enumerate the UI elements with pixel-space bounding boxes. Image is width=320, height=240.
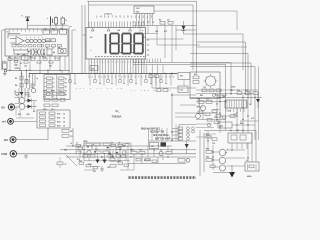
pin labels below bus [88, 75, 175, 78]
power box extra [216, 89, 244, 98]
resistor A3 [110, 158, 115, 161]
cluster A row2 [76, 151, 109, 154]
svg-text:C12: C12 [180, 90, 183, 92]
rm extra wires [196, 94, 220, 128]
svg-text:1μ: 1μ [36, 78, 38, 80]
wire top rail 2 [89, 4, 193, 6]
svg-text:R30: R30 [79, 160, 82, 162]
LCD digit 8b [122, 34, 131, 54]
svg-text:R41: R41 [200, 94, 203, 97]
block bottom dark dots [17, 51, 54, 55]
ladder stubs [44, 78, 47, 94]
N2 pins [137, 14, 153, 26]
svg-text:C15: C15 [131, 150, 134, 152]
svg-text:c: c [42, 37, 43, 39]
wire drop c [34, 74, 36, 87]
IC internal box cmp [47, 49, 52, 55]
array labels [26, 37, 43, 39]
IC internal labels [44, 28, 64, 30]
IC internal box ref [51, 30, 58, 34]
wire under bus right [152, 87, 196, 89]
svg-text:R20: R20 [57, 113, 60, 115]
svg-text:C16: C16 [139, 150, 142, 152]
svg-text:T5830A: T5830A [112, 114, 122, 118]
wire center v [171, 93, 173, 141]
wire rm h1 [196, 89, 258, 91]
svg-text:1k: 1k [70, 143, 72, 145]
transistor V11c [219, 157, 226, 164]
wire top-left rail [28, 24, 69, 29]
wire op-amp to array [24, 40, 50, 42]
driver box N6 [228, 133, 252, 143]
under block labels [8, 56, 52, 67]
driver box pins [232, 143, 247, 149]
resistor top right b [167, 19, 173, 24]
svg-text:10A: 10A [4, 139, 9, 142]
rm parts b [198, 110, 217, 116]
bus double ticks [134, 59, 161, 63]
svg-text:472: 472 [164, 30, 167, 33]
wire rm v1 [219, 90, 221, 133]
wire box feeds [48, 70, 62, 74]
jack VOmA [1, 104, 14, 110]
svg-text:C0: C0 [216, 104, 218, 106]
transistor V10c [219, 149, 226, 156]
svg-text:R44: R44 [240, 122, 243, 125]
svg-text:k: k [54, 83, 55, 85]
wire frame top br [204, 131, 256, 163]
wire block drops [10, 56, 65, 74]
ground cluster A [100, 166, 104, 171]
svg-text:C18: C18 [212, 143, 215, 145]
svg-text:R6: R6 [42, 56, 44, 58]
wire drop b [32, 74, 34, 89]
wire rm v2 [236, 108, 238, 133]
wire internal top [8, 34, 43, 36]
svg-text:SW: SW [91, 68, 94, 70]
svg-text:472: 472 [228, 110, 231, 113]
IC N4b box [177, 73, 190, 80]
svg-text:R25: R25 [64, 150, 67, 152]
LCD annunciator tri c [129, 28, 132, 31]
wire rm v5 [200, 98, 204, 120]
wire rm h2 [196, 93, 253, 95]
LCD digit 8c [134, 34, 143, 54]
LCD annunciator text [118, 30, 144, 32]
wire battery rail [7, 69, 70, 71]
svg-text:k: k [54, 87, 55, 89]
diode VD top [182, 21, 186, 34]
svg-text:R31: R31 [237, 90, 240, 92]
inner row2 parts [12, 44, 62, 47]
svg-text:R1: R1 [159, 19, 161, 21]
resistor under block a [8, 58, 12, 61]
wire harness v1 [68, 27, 70, 74]
transistor V3 [31, 88, 35, 92]
wire block bottom pins [10, 56, 60, 59]
svg-text:R50: R50 [206, 134, 209, 136]
frame corner rc [149, 125, 197, 147]
wire frame h1 [197, 42, 246, 95]
LCD annunciator tri a [91, 28, 94, 31]
svg-text:c: c [38, 37, 39, 39]
svg-text:R23: R23 [57, 125, 60, 127]
label N1 [116, 109, 121, 114]
wire row bus [148, 140, 196, 142]
svg-text:C7: C7 [76, 143, 78, 145]
wire under power box [190, 97, 262, 99]
wire block left loop [2, 30, 5, 70]
svg-text:473: 473 [49, 64, 52, 67]
svg-text:-a1: -a1 [147, 45, 150, 47]
power box outline [190, 72, 220, 99]
wire frame h4 [190, 63, 251, 105]
component in pin field [90, 66, 98, 71]
LCD digit 1 [105, 34, 107, 54]
band extra parts row1 [76, 144, 129, 147]
svg-text:R2: R2 [111, 143, 113, 145]
block top inner ticks [9, 29, 62, 32]
bus end parts [149, 73, 173, 78]
label TS830A [112, 114, 122, 118]
fuse F1 [55, 16, 58, 27]
band junction dots [72, 145, 168, 157]
br junction dots [212, 149, 248, 160]
transistor V9 [196, 114, 201, 119]
resistor row right c [253, 92, 258, 95]
label 6F22 right [231, 87, 235, 92]
wire harness v6 pin1 [88, 1, 90, 27]
svg-text:C2: C2 [52, 48, 54, 50]
resistor R-a [46, 39, 51, 42]
resistor chain R11 [20, 70, 23, 92]
rm parts c [207, 119, 219, 127]
IC right comps [58, 49, 66, 54]
power box labels [194, 74, 218, 96]
diode VD2 [28, 99, 32, 103]
LCD right marks [143, 37, 147, 52]
battery 9V [2, 61, 8, 70]
band extra labels [64, 143, 121, 173]
bus drop labels2 [131, 89, 172, 92]
rm parts a [198, 95, 224, 103]
svg-text:10μ: 10μ [83, 153, 86, 155]
IC internal box Xtal [43, 30, 50, 34]
cluster B verticals [131, 146, 168, 164]
svg-text:C1: C1 [8, 57, 10, 59]
bus double upper [133, 63, 231, 65]
relay box [218, 122, 232, 128]
svg-text:R21: R21 [57, 117, 60, 119]
electrolytic C dark [157, 142, 166, 147]
wire bus-end drops [152, 77, 184, 88]
labelled wire rows [141, 127, 178, 140]
wire left bus2 [30, 73, 70, 75]
hatch marks switch matrix [30, 49, 45, 56]
bottom small cluster left [57, 157, 67, 168]
wire frame v5 [190, 67, 259, 141]
IC N3 amplifier block outline [5, 29, 68, 56]
bus right top [133, 25, 196, 27]
bus bottom 1 [66, 145, 172, 147]
band extra parts row2 [83, 155, 121, 157]
rm extra labels [200, 94, 254, 125]
svg-text:104: 104 [236, 129, 239, 132]
jack 10A [4, 137, 17, 143]
wire topright drops [157, 24, 176, 62]
band extra parts row3 [79, 162, 129, 169]
base resistor a [206, 151, 212, 154]
svg-text:V6: V6 [160, 150, 162, 152]
band dark junctions [87, 145, 132, 158]
resistor B1 [166, 152, 172, 155]
cluster A labels [77, 141, 118, 169]
svg-text:c: c [34, 37, 35, 39]
chain labels [15, 76, 38, 87]
LCD top pins [89, 22, 144, 28]
diode VD right [256, 92, 260, 108]
jack COM [1, 151, 16, 157]
resistor under block d [31, 58, 35, 61]
svg-text:c: c [26, 37, 27, 39]
svg-text:4MHz: 4MHz [247, 175, 252, 178]
svg-text:AC(DC)V 750: AC(DC)V 750 [150, 131, 165, 134]
svg-text:BATT 9V 006P: BATT 9V 006P [155, 138, 171, 141]
svg-text:mA: mA [2, 121, 6, 124]
under bus right parts [156, 86, 188, 93]
grid labels [43, 91, 62, 112]
LCD module outline [86, 28, 146, 60]
rm band dots [207, 124, 243, 157]
topright small labels [155, 30, 167, 33]
wire harness v5 [84, 5, 86, 74]
svg-text:C7 103 R16 1k: C7 103 R16 1k [131, 89, 172, 92]
IC N4 hatched [225, 100, 247, 108]
wire br bottom [213, 172, 232, 174]
svg-text:9V: 9V [15, 64, 18, 67]
wire rm h3 [175, 113, 218, 117]
rm labels [197, 95, 251, 119]
wire frame h2 [197, 46, 247, 48]
capacitor under block e [37, 61, 41, 64]
cluster B extra [136, 159, 157, 163]
svg-text:R33: R33 [194, 74, 197, 76]
rm band parts [216, 115, 239, 133]
wire bl v [72, 128, 74, 146]
label probe [22, 16, 24, 18]
divider network box [44, 75, 70, 100]
cluster labels [14, 91, 35, 116]
resistor row right b [245, 90, 250, 95]
wire top rail 3 [154, 11, 237, 30]
rm junction dots [219, 89, 255, 116]
label 9V [15, 64, 21, 70]
wire cluster risers [19, 88, 28, 104]
label IC1 [7, 32, 11, 34]
LCD digit 8a [110, 34, 119, 54]
br labels [206, 148, 229, 159]
resistor grid [44, 93, 65, 107]
svg-text:C14: C14 [233, 113, 236, 116]
cluster A row1 [86, 143, 110, 146]
pin numbers row2 [133, 21, 155, 24]
svg-text:-a2: -a2 [147, 50, 150, 52]
ground battery [3, 72, 7, 76]
wire bottom right frame [200, 130, 204, 176]
wire br h2 [226, 150, 245, 166]
bus double drops [136, 65, 163, 74]
capacitor C3 [31, 84, 34, 87]
diode VD6 [103, 155, 107, 163]
wire jack1 [15, 106, 20, 108]
svg-text:C11: C11 [118, 160, 121, 162]
svg-text:223: 223 [93, 171, 96, 173]
range box rows [40, 112, 67, 127]
bus bottom 3 [66, 156, 196, 158]
transistor V8 [200, 105, 205, 110]
LCD annunciator tri b [107, 28, 110, 31]
wire harness stubs [69, 27, 86, 43]
wire rm h6 [196, 116, 259, 125]
wire frame h3 [190, 54, 248, 100]
svg-text:R4: R4 [15, 84, 17, 87]
wire br h [212, 152, 220, 167]
bus drops with parts [69, 74, 171, 86]
cluster A verticals [84, 140, 126, 161]
transistor V12c [220, 165, 226, 171]
svg-text:VΩ: VΩ [1, 106, 5, 109]
bus bottom 2 [60, 149, 196, 151]
transistor V5 [87, 150, 91, 154]
svg-text:C8: C8 [167, 19, 169, 21]
svg-text:C11: C11 [203, 87, 206, 89]
diode VD1 [20, 92, 24, 97]
svg-text:k: k [54, 79, 55, 81]
ground arrow dark [229, 165, 235, 178]
resistor row right a [237, 90, 242, 95]
wire row1 link [84, 144, 94, 147]
svg-text:R5: R5 [30, 56, 32, 58]
jack mA [2, 119, 13, 125]
svg-text:COM: COM [1, 153, 7, 156]
wire jack2 [13, 120, 37, 122]
svg-text:-a0: -a0 [147, 40, 150, 42]
wire harness v2 [71, 30, 73, 74]
diag wire [66, 155, 77, 166]
transistor V1 [19, 98, 25, 104]
LCD bottom pins [89, 59, 144, 74]
switch S1 [61, 16, 68, 27]
wire top rail 1 [87, 0, 197, 2]
resistor top right a [159, 19, 165, 24]
crystal label [247, 175, 252, 178]
wire rm v3 [242, 95, 244, 133]
svg-text:1k: 1k [171, 150, 173, 152]
LCD bottom marks [95, 56, 145, 58]
wire topright h [146, 39, 200, 45]
br mid wires [196, 131, 216, 150]
transistor under block [15, 60, 18, 63]
svg-text:c: c [30, 37, 31, 39]
svg-text:6F22: 6F22 [15, 68, 21, 70]
rm extra dots [216, 97, 248, 126]
transistor V2 [19, 104, 25, 110]
op-amp A1 [8, 34, 24, 46]
rail junction dots [9, 70, 60, 75]
wire topright rail2 [140, 26, 158, 34]
wire frame h0 [184, 34, 244, 70]
round IC U1 [204, 74, 218, 88]
power box rects [193, 76, 214, 92]
band extra h [84, 162, 134, 170]
wire drop a [29, 74, 31, 91]
svg-text:V12: V12 [251, 118, 254, 120]
svg-text:R26: R26 [84, 141, 87, 143]
LCD left marks [90, 36, 93, 52]
resistor under block g [49, 61, 53, 64]
diode VD5 [96, 155, 100, 163]
base resistor c [210, 165, 215, 168]
svg-text:C13: C13 [206, 99, 209, 101]
label col right of LCD [147, 40, 150, 57]
bus junction dots [95, 73, 165, 74]
svg-text:C9: C9 [95, 149, 97, 151]
wire harness v4 [81, 5, 83, 74]
small box B [178, 158, 190, 162]
svg-text:R10: R10 [18, 114, 21, 116]
resistor R-b [51, 39, 56, 42]
box under block [22, 56, 29, 61]
wire jack3 [16, 128, 48, 140]
svg-text:103: 103 [107, 167, 110, 169]
resistor bl b [62, 135, 72, 139]
resistor ladder [47, 77, 65, 95]
wire right col a [176, 5, 197, 70]
wire v mid right [226, 63, 231, 131]
svg-text:6F22: 6F22 [231, 87, 235, 89]
probe arrow symbol [25, 17, 30, 29]
wire cluster links [25, 101, 37, 111]
diode VD bottom [185, 141, 189, 154]
main bus [30, 73, 177, 75]
wire COM rail [17, 153, 197, 155]
svg-text:C8: C8 [118, 143, 120, 145]
pin numbers top row [96, 16, 152, 19]
cluster B caps [131, 152, 145, 155]
resistor under block h [55, 58, 59, 61]
inner row2 labels [13, 48, 60, 51]
resistor under block f [43, 58, 47, 61]
row end parts [178, 127, 194, 140]
transistor V6 [159, 151, 163, 155]
svg-text:1k: 1k [249, 104, 251, 106]
resistor bl a [62, 130, 72, 134]
LCD decimal points [120, 52, 134, 54]
ladder labels [54, 79, 68, 97]
svg-text:R40: R40 [197, 98, 200, 101]
svg-text:C2: C2 [70, 136, 72, 138]
IC internal box osc [60, 30, 67, 35]
svg-text:C3: C3 [28, 76, 30, 78]
pin numbers below display [89, 60, 146, 63]
cluster extra parts [15, 93, 35, 119]
cluster A extra [78, 147, 126, 167]
svg-text:104: 104 [222, 95, 225, 98]
jack below battery [4, 70, 6, 72]
br mid parts [206, 134, 217, 145]
wire rm v4 [247, 90, 249, 133]
IC N5 box [150, 143, 159, 149]
